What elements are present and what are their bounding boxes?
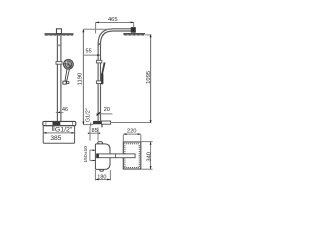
rain head hatch ticks [45,35,72,36]
G1/2 leader (side) [90,122,92,126]
svg-text:180: 180 [97,174,106,180]
pole (side) [97,45,99,121]
svg-text:1095: 1095 [146,71,152,84]
svg-text:220: 220 [127,128,137,134]
dim 46 extension line [60,105,62,114]
dim 465: extension right [133,22,135,27]
hand shower head (side) [101,73,103,84]
rain head plate (front) [45,33,74,35]
dim 20 line + arrow [96,113,112,115]
svg-text:150±10: 150±10 [83,146,88,163]
head rect (plan) [123,142,141,169]
hand shower head (front) [64,59,74,69]
dim 85 line + arrows [88,132,101,134]
head plate (side) [123,33,145,35]
dim 385 line + arrows (front) [43,132,74,134]
svg-text:1190: 1190 [78,73,84,85]
dim 1190: top extension [83,28,112,30]
inlet stub below bracket [101,124,103,127]
curved arm outer line [98,29,131,46]
dim 220: extensions [122,135,124,142]
svg-text:340: 340 [146,152,152,162]
dim 180 line + arrows [95,179,110,181]
arm end block [131,28,135,33]
dim 340 line + arrows [150,142,152,170]
dim 1095 line + arrows [150,35,152,123]
shelf outline (plan) [95,144,110,170]
dim 1190: bottom extension [83,124,93,126]
dim 1190 line + arrows [82,29,84,124]
slider collar (front) [56,62,62,65]
mixer body box (front) [43,126,74,144]
dim 180: extensions [94,170,96,180]
dim 465: extension left [95,22,97,33]
head rect inner dots [124,143,139,168]
dim 1095: top extension [145,34,151,36]
svg-text:465: 465 [108,17,118,23]
svg-text:G1/2″: G1/2″ [86,108,92,122]
svg-text:85: 85 [92,128,98,134]
arm bar seam [115,154,117,158]
shelf top tab (plan) [98,142,102,144]
shelf bottom tab (plan) [100,169,103,171]
svg-text:385: 385 [50,135,62,142]
dim 150±10 bracket [89,150,91,160]
dim 220 line + arrows [123,133,141,135]
hand shower handle end + hook (front) [63,81,66,84]
svg-text:46: 46 [62,107,68,113]
arm bar left block (plan) [97,154,99,159]
dim 1095: bottom extension [111,122,152,124]
pole (front, two lines) [56,34,58,122]
hand shower handle (side) [102,63,105,74]
shelf center dark block (front) [53,122,61,125]
dim 85: extension lines [89,126,91,140]
slider collar (side) [96,60,101,63]
dim 340: extensions [141,141,152,143]
hand shower handle (front) [65,69,69,81]
dim 55 leader + arrow [83,54,99,56]
pole joint (front) [57,44,61,46]
pole joint (side) [98,43,101,45]
ceiling connector rect (front) [56,29,61,34]
dim 46 line + arrow [56,111,64,113]
head plate hatch (side) [124,35,144,36]
dim 465 line + arrows [96,22,134,24]
curved arm inner line [101,31,132,46]
shelf top bar (front) [43,121,76,125]
wall bracket (side) [93,121,102,124]
svg-text:20: 20 [104,107,110,113]
arm bar (plan) [97,154,136,158]
bottom holder (side) [96,81,102,84]
G1/2 leader (front) [51,126,53,131]
svg-text:55: 55 [86,48,92,54]
